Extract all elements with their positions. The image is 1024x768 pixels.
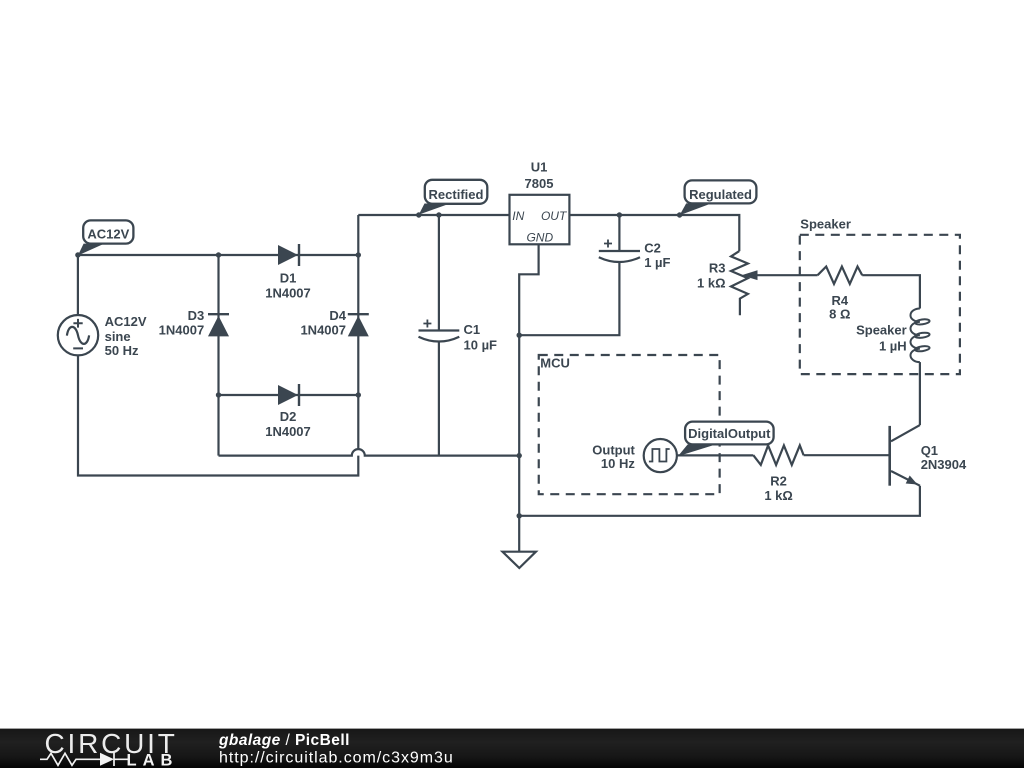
svg-text:2N3904: 2N3904 bbox=[921, 457, 967, 472]
svg-text:1 µH: 1 µH bbox=[879, 339, 907, 354]
svg-text:AC12V: AC12V bbox=[105, 314, 147, 329]
svg-text:1N4007: 1N4007 bbox=[265, 285, 311, 300]
svg-text:AC12V: AC12V bbox=[87, 226, 129, 241]
svg-text:Rectified: Rectified bbox=[429, 187, 484, 202]
svg-text:LAB: LAB bbox=[127, 752, 179, 768]
svg-text:C2: C2 bbox=[644, 241, 661, 256]
svg-text:7805: 7805 bbox=[525, 176, 554, 191]
svg-text:R3: R3 bbox=[709, 261, 726, 276]
svg-text:IN: IN bbox=[512, 209, 524, 223]
svg-text:1N4007: 1N4007 bbox=[300, 323, 346, 338]
svg-text:Speaker: Speaker bbox=[800, 216, 851, 231]
svg-text:1N4007: 1N4007 bbox=[159, 323, 205, 338]
svg-text:D4: D4 bbox=[329, 308, 346, 323]
svg-text:D3: D3 bbox=[188, 308, 205, 323]
svg-text:1 kΩ: 1 kΩ bbox=[764, 488, 793, 503]
svg-text:Speaker: Speaker bbox=[856, 323, 907, 338]
svg-text:MCU: MCU bbox=[540, 356, 570, 371]
svg-text:http://circuitlab.com/c3x9m3u: http://circuitlab.com/c3x9m3u bbox=[219, 749, 454, 766]
svg-text:DigitalOutput: DigitalOutput bbox=[688, 426, 771, 441]
svg-text:8 Ω: 8 Ω bbox=[829, 307, 850, 322]
svg-text:50 Hz: 50 Hz bbox=[105, 343, 139, 358]
svg-text:1 kΩ: 1 kΩ bbox=[697, 276, 726, 291]
svg-text:R2: R2 bbox=[770, 474, 787, 489]
svg-text:U1: U1 bbox=[531, 159, 548, 174]
svg-text:Q1: Q1 bbox=[921, 443, 938, 458]
svg-text:10 Hz: 10 Hz bbox=[601, 456, 635, 471]
svg-text:Regulated: Regulated bbox=[689, 187, 752, 202]
svg-text:gbalage / PicBell: gbalage / PicBell bbox=[218, 732, 350, 749]
svg-text:sine: sine bbox=[105, 329, 131, 344]
svg-text:D1: D1 bbox=[280, 271, 297, 286]
svg-text:C1: C1 bbox=[464, 322, 481, 337]
svg-text:1N4007: 1N4007 bbox=[265, 424, 311, 439]
svg-text:GND: GND bbox=[526, 231, 553, 245]
svg-text:OUT: OUT bbox=[541, 209, 568, 223]
svg-text:1 µF: 1 µF bbox=[644, 255, 670, 270]
svg-text:D2: D2 bbox=[280, 409, 297, 424]
svg-text:10 µF: 10 µF bbox=[464, 337, 498, 352]
